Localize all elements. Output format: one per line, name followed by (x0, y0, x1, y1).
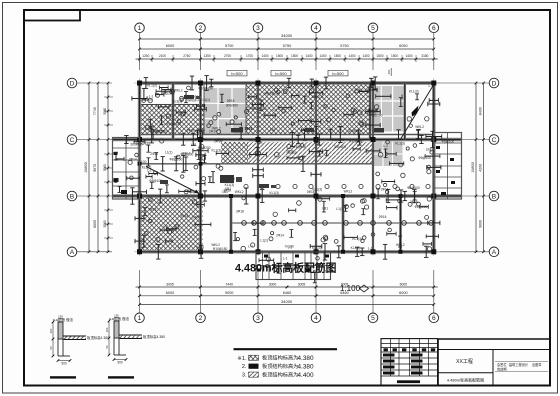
svg-text:3Ф18: 3Ф18 (227, 99, 235, 103)
axis bubble A left (67, 247, 77, 257)
annotations C-B diag band (255, 144, 360, 160)
svg-text:500: 500 (61, 362, 67, 366)
svg-text:5700: 5700 (225, 44, 233, 48)
svg-text:300x600: 300x600 (348, 129, 360, 133)
annotations top cells extra (147, 84, 200, 102)
axis bubble 1 bottom (135, 313, 145, 323)
svg-text:4: 4 (314, 25, 318, 32)
annotations along wall B (188, 187, 352, 195)
annotations stair zone (142, 164, 235, 194)
beam label b=500 #1 (227, 70, 247, 76)
svg-text:有效期: 有效期 (497, 367, 507, 372)
rebar marks wall C (124, 131, 435, 147)
svg-text:300x600: 300x600 (334, 145, 346, 149)
svg-text:3Ф18: 3Ф18 (186, 129, 194, 133)
circle marks above B (244, 184, 430, 188)
svg-text:Ф10@150: Ф10@150 (213, 247, 228, 251)
wall axis A (140, 250, 434, 253)
svg-text:板顶结构标高为: 板顶结构标高为 (262, 354, 298, 362)
dark label cluster beam1 (184, 95, 201, 99)
svg-text:WKL2: WKL2 (235, 190, 244, 194)
drawing scale text (340, 284, 369, 293)
svg-text:出图章: 出图章 (532, 362, 542, 367)
wall D-C ramp left edge (404, 83, 406, 140)
left dimension lines (77, 82, 113, 253)
svg-text:L-1: L-1 (429, 84, 434, 88)
svg-text:6000: 6000 (166, 291, 174, 295)
gray slab opening D-C right (370, 86, 404, 132)
svg-text:200: 200 (387, 69, 391, 74)
title block project name (456, 358, 473, 365)
svg-text:5670: 5670 (93, 164, 97, 172)
ramp diagonal (400, 85, 433, 139)
svg-text:4: 4 (314, 315, 318, 322)
bottom annex block (256, 252, 331, 280)
annotations D-C hatch mid (259, 88, 383, 142)
legend row 1 (237, 354, 314, 362)
svg-text:3: 3 (256, 25, 260, 32)
svg-text:2Ф16: 2Ф16 (192, 215, 200, 219)
svg-text:2: 2 (199, 315, 203, 322)
svg-text:2Ф16: 2Ф16 (244, 127, 252, 131)
annotations hall lower (233, 228, 438, 251)
svg-text:A: A (70, 249, 75, 256)
axis bubble A right (489, 247, 499, 257)
svg-text:XX工程: XX工程 (456, 358, 473, 365)
columns at grid intersections (137, 81, 436, 255)
axis bubble B left (67, 191, 77, 201)
svg-text:34000: 34000 (281, 33, 293, 38)
wall axis 4 (315, 83, 317, 252)
svg-text:1500: 1500 (291, 54, 298, 58)
wall B-A mid 2 (399, 196, 402, 252)
left protrusion rooms (113, 138, 140, 200)
svg-text:Ф8@200: Ф8@200 (198, 146, 211, 150)
annotations annex (259, 256, 332, 282)
svg-text:3: 3 (256, 315, 260, 322)
svg-text:6: 6 (432, 25, 436, 32)
svg-text:1700: 1700 (246, 54, 253, 58)
beam line B-A (231, 222, 434, 224)
diagonal hatched slab C-B (247, 142, 372, 164)
axis bubble D left (67, 78, 77, 88)
dark label cluster beam4 (374, 128, 384, 133)
svg-text:3Ф18: 3Ф18 (286, 149, 294, 153)
svg-text:100: 100 (49, 328, 53, 333)
svg-text:4.480m标高板配筋图: 4.480m标高板配筋图 (235, 261, 337, 275)
svg-text:4.380: 4.380 (298, 355, 314, 362)
svg-text:6050: 6050 (399, 44, 407, 48)
scale bar left (50, 376, 76, 378)
svg-text:Ф10@150: Ф10@150 (166, 122, 181, 126)
wall axis 6 (432, 83, 435, 252)
axis bubble 2 top (196, 23, 206, 33)
top dimension lines (136, 33, 438, 70)
svg-text:L-1: L-1 (368, 246, 373, 250)
svg-text:3Ф18: 3Ф18 (181, 214, 189, 218)
svg-text:9000: 9000 (225, 291, 233, 295)
axis bubble 6 bottom (429, 313, 439, 323)
svg-text:Ф8@200: Ф8@200 (188, 190, 201, 194)
axis bubble C right (489, 135, 499, 145)
svg-text:4.380: 4.380 (298, 363, 314, 370)
svg-text:WKL2: WKL2 (174, 89, 183, 93)
right dimension lines (434, 82, 489, 253)
svg-text:8005: 8005 (93, 220, 97, 228)
rebar marks wall A (156, 244, 428, 260)
annotations hall upper (236, 196, 431, 219)
svg-text:3.: 3. (242, 373, 247, 379)
svg-text:1400: 1400 (362, 54, 369, 58)
axis bubble C left (67, 135, 77, 145)
svg-text:Ф10@150: Ф10@150 (349, 139, 364, 143)
svg-text:100: 100 (105, 327, 109, 332)
svg-text:7440: 7440 (225, 282, 233, 286)
svg-text:2Ф16: 2Ф16 (410, 200, 418, 204)
svg-text:WKL2: WKL2 (344, 189, 353, 193)
svg-text:6460: 6460 (283, 291, 291, 295)
svg-text:h=100: h=100 (285, 244, 294, 248)
svg-text:3005: 3005 (298, 282, 306, 286)
svg-text:WKL2: WKL2 (396, 243, 405, 247)
svg-text:300x600: 300x600 (226, 104, 238, 108)
annotations ramp cell (374, 84, 433, 127)
axis bubble 2 bottom (196, 313, 206, 323)
hatched slab region D-C left (140, 105, 206, 135)
beam line C-B (140, 163, 373, 165)
svg-text:Ф8@200: Ф8@200 (332, 138, 345, 142)
svg-text:500: 500 (117, 361, 123, 365)
svg-text:WKL2: WKL2 (249, 139, 258, 143)
svg-text:3Ф18: 3Ф18 (236, 209, 244, 213)
annotations hatch B-A (142, 198, 211, 248)
hatched slab region D-C mid (246, 85, 370, 135)
svg-text:建筑工程设计: 建筑工程设计 (509, 362, 529, 367)
beam vertical gray edges (204, 84, 246, 134)
dark label cluster beam3 (305, 128, 314, 132)
wall D-C gray2 left edge (369, 83, 371, 140)
svg-text:3Ф18: 3Ф18 (149, 208, 157, 212)
svg-text:D: D (70, 80, 75, 87)
svg-text:L1(1): L1(1) (165, 150, 172, 154)
wall axis 5 (372, 83, 374, 252)
svg-text:A: A (492, 249, 497, 256)
svg-text:L-1: L-1 (273, 108, 278, 112)
signature table (381, 339, 438, 386)
svg-text:Ф8@200: Ф8@200 (370, 113, 383, 117)
svg-text:KL1(3): KL1(3) (212, 149, 222, 153)
svg-text:D: D (492, 80, 497, 87)
wall B-A extra (230, 196, 233, 252)
svg-text:B: B (70, 193, 75, 200)
svg-text:7740: 7740 (93, 107, 97, 115)
svg-text:1350: 1350 (204, 54, 211, 58)
section detail a-a (49, 315, 109, 366)
svg-text:2Ф14: 2Ф14 (276, 233, 284, 237)
svg-text:b=500: b=500 (332, 71, 344, 76)
svg-text:KL1(3): KL1(3) (147, 84, 157, 88)
svg-text:KL1(3): KL1(3) (351, 246, 361, 250)
bottom dimension lines (136, 270, 438, 313)
svg-text:L-1: L-1 (283, 256, 288, 260)
svg-text:16800: 16800 (84, 162, 88, 173)
svg-text:Ф10@150: Ф10@150 (265, 92, 280, 96)
svg-text:Ф8@100: Ф8@100 (293, 145, 306, 149)
gray slab opening D-C left (204, 88, 246, 134)
rebar marks wall D (144, 76, 378, 91)
svg-text:L-1: L-1 (149, 94, 154, 98)
svg-text:L-1: L-1 (178, 245, 183, 249)
axis bubble 1 top (135, 23, 145, 33)
title block frame (438, 339, 550, 386)
hatched slab region C-B small (221, 142, 248, 164)
svg-text:LB1: LB1 (312, 95, 318, 99)
svg-text:2700: 2700 (224, 54, 231, 58)
drawing title text (235, 261, 337, 275)
svg-text:3005: 3005 (166, 282, 174, 286)
annotations D-C cell 1-2 top (142, 86, 213, 103)
grid centerlines (134, 78, 440, 256)
svg-text:KL1(3): KL1(3) (352, 237, 362, 241)
svg-text:板顶结构标高为: 板顶结构标高为 (262, 370, 298, 378)
svg-text:1500: 1500 (334, 54, 341, 58)
rebar marks axis 5 (366, 88, 380, 153)
svg-text:5750: 5750 (283, 44, 291, 48)
svg-text:300x600: 300x600 (130, 143, 142, 147)
wall axis 1 (138, 83, 141, 252)
annotations along beam D-C (150, 125, 425, 134)
svg-text:Ф8@200: Ф8@200 (161, 92, 174, 96)
legend separator line (234, 348, 338, 350)
svg-text:XB1: XB1 (225, 187, 232, 191)
wall axis C (113, 138, 462, 141)
annotations D-C hatch left (145, 105, 205, 139)
svg-text:L-1: L-1 (147, 168, 152, 172)
svg-text:2760: 2760 (183, 54, 190, 58)
svg-text:KL1(3): KL1(3) (313, 187, 323, 191)
rebar marks beam D-C (150, 126, 421, 143)
svg-text:1260: 1260 (142, 54, 149, 58)
stair arrow (146, 167, 199, 194)
svg-text:150: 150 (114, 314, 119, 318)
axis bubble 5 top (368, 23, 378, 33)
svg-text:9000: 9000 (479, 220, 483, 228)
svg-text:50: 50 (49, 346, 53, 350)
svg-text:L-1: L-1 (431, 149, 436, 153)
svg-text:3180: 3180 (421, 54, 428, 58)
svg-text:1500: 1500 (391, 54, 398, 58)
gray slab C-B (373, 142, 403, 167)
svg-text:h=100: h=100 (137, 160, 146, 164)
svg-text:6000: 6000 (166, 44, 174, 48)
svg-text:1400: 1400 (319, 54, 326, 58)
svg-text:L1(1): L1(1) (336, 207, 343, 211)
svg-text:b=500: b=500 (275, 71, 287, 76)
svg-text:1400: 1400 (348, 54, 355, 58)
svg-text:4200: 4200 (479, 164, 483, 172)
svg-text:34000: 34000 (281, 299, 293, 304)
title tab top-left (24, 10, 80, 21)
annotations along wall A (178, 243, 405, 251)
svg-text:3060: 3060 (103, 164, 107, 171)
axis bubble 6 top (429, 23, 439, 33)
axis bubble 5 bottom (368, 313, 378, 323)
axis bubble 4 top (311, 23, 321, 33)
svg-text:WKL2: WKL2 (211, 243, 220, 247)
svg-text:5750: 5750 (340, 44, 348, 48)
svg-text:KL1(3): KL1(3) (395, 141, 405, 145)
svg-text:2100: 2100 (159, 54, 166, 58)
svg-text:150: 150 (58, 315, 63, 319)
svg-text:板顶标高4.380: 板顶标高4.380 (87, 335, 109, 340)
rebar marks beam C-B (161, 155, 306, 172)
title block right cell (495, 362, 548, 372)
svg-text:2Ф16: 2Ф16 (150, 152, 158, 156)
rebar marks axis 4 (309, 91, 322, 249)
svg-text:6: 6 (432, 315, 436, 322)
right toilet block (434, 133, 462, 200)
beam tag 200 (387, 68, 391, 76)
scale bar right (108, 376, 134, 378)
svg-text:5: 5 (371, 315, 375, 322)
svg-text:WKL2: WKL2 (415, 125, 424, 129)
svg-text:16800: 16800 (471, 162, 475, 173)
svg-text:LB1: LB1 (257, 140, 263, 144)
beam line mid D-C (140, 105, 434, 135)
svg-text:2.: 2. (242, 364, 247, 370)
section detail b-b (105, 314, 165, 365)
svg-text:1: 1 (138, 25, 142, 32)
rebar marks axis 6 (426, 98, 442, 225)
svg-text:※1.: ※1. (237, 355, 247, 362)
svg-text:6000: 6000 (400, 282, 408, 286)
svg-text:C: C (70, 137, 75, 144)
svg-text:L1(1): L1(1) (261, 239, 268, 243)
svg-text:B: B (492, 193, 497, 200)
svg-text:2Ф14: 2Ф14 (129, 158, 137, 162)
svg-text:3000: 3000 (269, 282, 277, 286)
svg-text:L-1: L-1 (164, 225, 169, 229)
beam label b=500 #2 (271, 70, 291, 76)
wall axis 2 (199, 83, 202, 252)
svg-text:1400: 1400 (261, 54, 268, 58)
rebar marks axis 2 (193, 104, 208, 186)
axis bubble B right (489, 191, 499, 201)
svg-text:1: 1 (138, 315, 142, 322)
svg-text:Ф8@100: Ф8@100 (418, 156, 431, 160)
circle marks along beam B-A (242, 221, 434, 226)
svg-text:Ф8@200: Ф8@200 (415, 205, 428, 209)
svg-text:5: 5 (371, 25, 375, 32)
svg-text:L-1: L-1 (248, 245, 253, 249)
annotations C-B left (146, 139, 228, 166)
svg-text:1500: 1500 (376, 54, 383, 58)
dark label cluster hall (259, 184, 276, 188)
svg-text:2Ф14: 2Ф14 (178, 112, 186, 116)
svg-text:KL1(3): KL1(3) (409, 89, 419, 93)
svg-text:4.400: 4.400 (298, 372, 314, 379)
annotations along wall C (214, 138, 454, 145)
svg-text:6000: 6000 (399, 291, 407, 295)
svg-text:50: 50 (105, 345, 109, 349)
svg-text:b=500: b=500 (231, 71, 243, 76)
rebar marks wall B (130, 188, 416, 204)
svg-text:2Ф14: 2Ф14 (209, 129, 217, 133)
svg-text:L-1: L-1 (197, 123, 202, 127)
svg-text:会签栏: 会签栏 (497, 362, 507, 367)
rebar marks axis 3 (250, 102, 267, 225)
svg-text:2Ф16: 2Ф16 (379, 215, 387, 219)
axis bubble 3 bottom (253, 313, 263, 323)
legend row 3 (242, 370, 314, 378)
wall axis 3 (257, 83, 259, 252)
annotations left protrusion (114, 142, 151, 193)
wall D-C mid cell1 (172, 83, 175, 140)
hatched slab region B-A left (140, 198, 203, 251)
svg-text:Ф8@100: Ф8@100 (441, 139, 454, 143)
svg-text:KL1(3): KL1(3) (270, 191, 280, 195)
dense annotation cluster (220, 175, 242, 191)
svg-text:1400: 1400 (305, 54, 312, 58)
svg-text:C: C (492, 137, 497, 144)
svg-text:a-a剖面 做法: a-a剖面 做法 (53, 317, 74, 322)
svg-text:a-a剖面 做法: a-a剖面 做法 (109, 316, 130, 321)
title block drawing name (447, 377, 484, 383)
legend row 2 (242, 362, 314, 370)
svg-text:板顶标高4.380: 板顶标高4.380 (143, 334, 165, 339)
svg-text:8400: 8400 (479, 107, 483, 115)
axis bubble D right (489, 78, 499, 88)
svg-text:1:100: 1:100 (340, 284, 361, 293)
svg-text:L-1: L-1 (383, 144, 388, 148)
svg-text:4.480m标高板配筋图: 4.480m标高板配筋图 (447, 377, 484, 383)
beam label b=500 #3 (328, 70, 348, 76)
annotations C-B right rooms (376, 140, 440, 200)
wall axis B (113, 194, 462, 197)
annotations D-C gray block (207, 94, 267, 139)
dark label cluster stair (160, 180, 168, 184)
rebar marks axis 1 (132, 96, 147, 243)
svg-text:2Ф14: 2Ф14 (247, 106, 255, 110)
svg-text:3Ф18: 3Ф18 (196, 245, 204, 249)
svg-text:1500: 1500 (276, 54, 283, 58)
dark label cluster beam2 (231, 128, 243, 133)
svg-text:2Ф14: 2Ф14 (214, 140, 222, 144)
axis bubble 3 top (253, 23, 263, 33)
svg-text:1400: 1400 (405, 54, 412, 58)
svg-text:2: 2 (199, 25, 203, 32)
wall axis D (140, 81, 434, 84)
wall B-A mid 1 (342, 196, 345, 252)
svg-text:L1(1): L1(1) (203, 98, 210, 102)
svg-text:LB1: LB1 (270, 128, 276, 132)
svg-text:板顶结构标高为: 板顶结构标高为 (262, 362, 298, 370)
svg-text:LB1: LB1 (322, 207, 328, 211)
axis bubble 4 bottom (311, 313, 321, 323)
